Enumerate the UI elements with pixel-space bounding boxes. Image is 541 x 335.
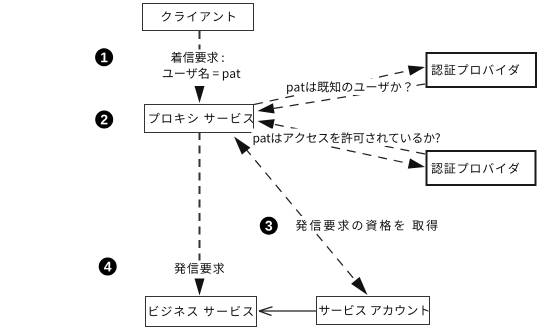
label 着信要求 : (incoming request) <box>169 50 227 65</box>
label 発信要求の資格を取得 (get credentials) <box>294 216 440 234</box>
dashed arrow: auth provider 2 back to proxy <box>258 119 426 154</box>
label ユーザ名 = pat <box>160 65 241 81</box>
box 認証プロバイダ 1 (auth provider) <box>427 53 537 87</box>
step circle 3 <box>260 217 278 235</box>
step circle 1 <box>95 48 113 66</box>
box サービス アカウント (service account) <box>317 297 430 325</box>
dashed double arrow: proxy and service account (get credentials) <box>234 137 368 296</box>
dashed arrow: proxy to business service (outgoing request) <box>195 132 205 296</box>
label 発信要求 (outgoing request) <box>172 261 227 276</box>
label patは既知のユーザか？ <box>285 79 417 96</box>
label patはアクセスを許可されているか? <box>252 129 443 147</box>
box クライアント (client) <box>143 4 254 31</box>
box プロキシ サービス (proxy service) <box>145 105 254 133</box>
dashed arrow: auth provider 1 back to proxy <box>258 84 426 114</box>
dashed arrow: client to proxy (incoming request) <box>195 31 205 103</box>
dashed arrow: proxy to auth provider 1 <box>254 66 425 105</box>
step circle 2 <box>95 111 113 129</box>
box ビジネス サービス (business service) <box>146 297 257 327</box>
box 認証プロバイダ 2 (auth provider) <box>427 151 536 185</box>
dashed arrow: proxy to auth provider 2 <box>253 130 425 169</box>
step circle 4 <box>99 258 117 276</box>
solid arrow: service account to business service <box>259 307 317 316</box>
